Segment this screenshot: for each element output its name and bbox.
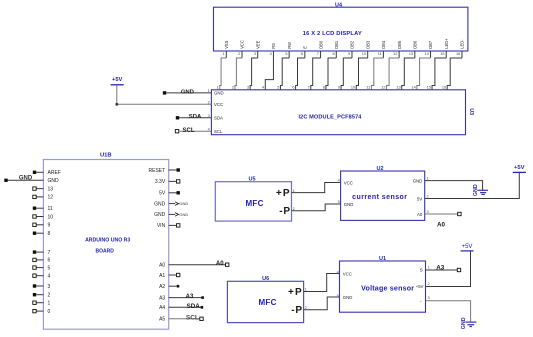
svg-text:6: 6	[292, 86, 294, 90]
Arduino Uno R3 board U1B	[43, 153, 168, 330]
svg-text:3: 3	[428, 296, 430, 300]
svg-text:GND: GND	[344, 202, 354, 207]
svg-text:+5V: +5V	[462, 244, 473, 250]
Arduino pin 5V (right)	[159, 191, 180, 197]
Arduino pin 5 (left)	[33, 265, 51, 271]
Arduino pin 8 (left)	[33, 231, 51, 237]
svg-text:16: 16	[456, 52, 460, 56]
MFC block U5	[215, 177, 294, 222]
svg-text:U2: U2	[376, 166, 383, 172]
wire U1 +5V pin 2 to +5V	[426, 251, 471, 287]
svg-text:4: 4	[262, 86, 264, 90]
svg-text:-P: -P	[279, 206, 291, 217]
Arduino pin 6 (left)	[33, 258, 51, 264]
LCD U4 pin 14 stub	[425, 51, 431, 58]
svg-text:A0: A0	[159, 263, 165, 269]
svg-text:GND: GND	[19, 175, 33, 181]
svg-text:A0: A0	[216, 261, 224, 267]
svg-text:11: 11	[378, 52, 382, 56]
svg-text:SDA: SDA	[187, 303, 201, 310]
LCD U4 pin 13 stub	[409, 51, 415, 58]
svg-text:4: 4	[48, 274, 51, 280]
svg-text:15: 15	[440, 52, 444, 56]
LCD display U4	[214, 2, 468, 51]
svg-text:MFC: MFC	[245, 199, 263, 208]
svg-text:A4: A4	[159, 305, 165, 311]
Arduino pin A5 with net label SCL	[159, 315, 203, 323]
svg-text:14: 14	[412, 86, 416, 90]
svg-text:I2C MODULE_PCF8574: I2C MODULE_PCF8574	[298, 114, 362, 120]
svg-text:4: 4	[337, 270, 339, 274]
svg-text:VSS: VSS	[224, 40, 229, 48]
svg-text:3.3V: 3.3V	[155, 179, 166, 185]
svg-text:4: 4	[338, 179, 340, 183]
Arduino pin 0 (left)	[33, 309, 51, 315]
svg-text:DB6: DB6	[413, 40, 418, 49]
svg-text:16: 16	[442, 86, 446, 90]
svg-text:A0: A0	[437, 222, 446, 229]
+5V power symbol (voltage sensor)	[461, 244, 474, 251]
svg-text:6: 6	[48, 258, 51, 264]
svg-text:SDA: SDA	[214, 115, 223, 120]
Arduino pin 3 (left)	[33, 284, 51, 290]
wire U2 A0 pin 3 to terminal, net label A0	[425, 212, 461, 228]
wire LCD pin 16 to I2C module pin 16	[442, 58, 462, 90]
svg-text:A3: A3	[186, 294, 194, 300]
Arduino pin A1	[159, 273, 180, 279]
Arduino pin 10 (left)	[33, 214, 53, 220]
svg-text:8: 8	[323, 86, 325, 90]
Arduino pin 7 (left)	[33, 250, 51, 256]
svg-text:+5V: +5V	[112, 77, 123, 83]
Arduino pin 12 (left)	[33, 195, 53, 201]
svg-text:7: 7	[48, 250, 51, 256]
wire LCD pin 9 to I2C module pin 9	[338, 58, 352, 90]
svg-text:GND: GND	[48, 178, 60, 184]
I2C module U3 PCF8574	[208, 89, 475, 135]
svg-text:11: 11	[366, 86, 370, 90]
wire LCD pin 4 to I2C module pin 4	[262, 58, 273, 90]
svg-text:6: 6	[301, 52, 303, 56]
svg-text:5: 5	[277, 86, 279, 90]
svg-text:0: 0	[48, 309, 51, 315]
svg-text:ARDUINO UNO R3: ARDUINO UNO R3	[85, 237, 130, 243]
svg-text:SCL: SCL	[214, 129, 223, 134]
svg-text:2: 2	[238, 52, 240, 56]
net label GND (I2C pin 1)	[163, 89, 212, 95]
svg-text:1: 1	[428, 265, 430, 269]
svg-text:11: 11	[48, 206, 53, 212]
svg-text:GND: GND	[343, 295, 353, 300]
svg-text:U6: U6	[262, 276, 269, 282]
svg-text:GND: GND	[154, 212, 166, 218]
svg-text:2: 2	[293, 207, 295, 211]
svg-text:5: 5	[285, 52, 287, 56]
wire LCD pin 7 to I2C module pin 7	[308, 58, 321, 90]
svg-text:DB4: DB4	[381, 40, 386, 49]
LCD U4 pin 1 stub	[222, 51, 226, 58]
svg-text:1: 1	[48, 301, 51, 307]
svg-text:E: E	[303, 46, 308, 49]
wire LCD pin 2 to I2C module pin 2	[232, 58, 242, 90]
svg-text:GND: GND	[214, 91, 224, 96]
wire U6 +P to U1 VCC pin 4	[304, 274, 340, 292]
svg-text:LED+: LED+	[444, 38, 449, 49]
LCD U4 pin 7 stub	[317, 51, 321, 58]
current sensor U2	[338, 166, 429, 221]
LCD U4 pin 11 stub	[378, 51, 384, 58]
svg-text:+P: +P	[288, 287, 303, 298]
LCD U4 pin 15 stub	[440, 51, 446, 58]
LCD U4 pin 6 stub	[301, 51, 305, 58]
svg-text:7: 7	[317, 52, 319, 56]
wire LCD pin 12 to I2C module pin 12	[381, 58, 399, 90]
wire U1 S pin 1 to terminal, net label A3	[426, 264, 461, 271]
svg-text:3: 3	[427, 210, 429, 214]
Arduino pin A0 with net label A0	[159, 261, 229, 268]
Arduino GND pin with net label GND	[4, 175, 59, 184]
net label SDA (I2C pin 3)	[176, 114, 212, 120]
Arduino pin A3 with net label A3	[159, 294, 204, 302]
svg-text:GND: GND	[154, 201, 166, 207]
svg-text:VCC: VCC	[214, 102, 223, 107]
Arduino pin VIN (right)	[157, 223, 180, 229]
svg-text:5: 5	[338, 200, 340, 204]
svg-text:16 X 2 LCD DISPLAY: 16 X 2 LCD DISPLAY	[303, 31, 362, 37]
wire LCD pin 3 to I2C module pin 3	[247, 58, 258, 90]
MFC block U6	[227, 276, 306, 322]
svg-text:DB7: DB7	[428, 40, 433, 49]
LCD U4 pin 12 stub	[393, 51, 399, 58]
Arduino GND pin with ground arrow symbol	[154, 212, 188, 218]
svg-text:2: 2	[428, 282, 430, 286]
svg-text:A2: A2	[159, 284, 165, 290]
svg-text:1: 1	[222, 52, 224, 56]
svg-text:15: 15	[427, 86, 431, 90]
svg-text:VCC: VCC	[344, 180, 353, 185]
svg-text:RW: RW	[287, 42, 292, 49]
LCD U4 pin 10 stub	[362, 51, 368, 58]
svg-text:U1: U1	[379, 256, 386, 262]
svg-text:9: 9	[48, 223, 51, 229]
svg-text:LED-: LED-	[460, 39, 465, 49]
svg-text:DB2: DB2	[350, 40, 355, 49]
Arduino pin A2	[159, 284, 179, 290]
LCD U4 pin 5 stub	[285, 51, 289, 58]
LCD U4 pin 4 stub	[270, 51, 274, 58]
svg-text:12: 12	[381, 86, 385, 90]
svg-text:AREF: AREF	[48, 170, 61, 176]
+5V power symbol (current sensor)	[513, 165, 526, 173]
svg-text:1: 1	[217, 86, 219, 90]
wire LCD pin 1 to I2C module pin 1	[217, 58, 227, 90]
svg-text:GND: GND	[181, 89, 194, 95]
wire LCD pin 10 to I2C module pin 10	[351, 58, 368, 90]
svg-text:GND: GND	[179, 201, 188, 206]
wire LCD pin 11 to I2C module pin 11	[366, 58, 383, 90]
svg-text:-P: -P	[291, 305, 303, 316]
svg-text:BOARD: BOARD	[96, 249, 115, 255]
net label SCL (I2C pin 4)	[175, 128, 211, 134]
svg-text:A3: A3	[436, 264, 445, 271]
ground symbol (voltage sensor)	[461, 317, 477, 329]
Arduino pin AREF (left)	[33, 170, 61, 176]
wire +5V to I2C VCC pin 2	[117, 85, 212, 105]
svg-text:2: 2	[232, 86, 234, 90]
svg-text:DB1: DB1	[334, 40, 339, 49]
svg-text:DB3: DB3	[365, 40, 370, 49]
svg-text:13: 13	[48, 186, 54, 192]
svg-text:8: 8	[332, 52, 334, 56]
svg-text:SCL: SCL	[183, 128, 195, 134]
svg-text:RS: RS	[271, 43, 276, 49]
LCD U4 pin 8 stub	[332, 51, 336, 58]
wire LCD pin 5 to I2C module pin 5	[277, 58, 289, 90]
Arduino GND pin with ground arrow symbol	[154, 201, 188, 207]
svg-text:+5V: +5V	[416, 284, 424, 289]
svg-text:VCC: VCC	[343, 272, 352, 277]
svg-text:A3: A3	[159, 295, 165, 301]
Arduino pin RESET (right)	[149, 168, 180, 174]
svg-text:U1B: U1B	[100, 153, 112, 159]
svg-text:9: 9	[338, 86, 340, 90]
svg-text:GND: GND	[461, 317, 467, 329]
svg-text:DB0: DB0	[318, 40, 323, 49]
svg-text:7: 7	[308, 86, 310, 90]
svg-text:VCC: VCC	[240, 40, 245, 49]
Arduino pin 1 (left)	[33, 301, 51, 307]
wire U2 GND pin 1 to ground	[425, 181, 483, 191]
svg-text:U3: U3	[468, 108, 474, 115]
wire LCD pin 6 to I2C module pin 6	[292, 58, 304, 90]
svg-text:5: 5	[337, 294, 339, 298]
svg-text:12: 12	[393, 52, 397, 56]
svg-text:13: 13	[409, 52, 413, 56]
svg-text:DB5: DB5	[397, 40, 402, 49]
svg-text:8: 8	[48, 231, 51, 237]
wire LCD pin 13 to I2C module pin 13	[396, 58, 414, 90]
svg-text:2: 2	[48, 293, 51, 299]
wire U5 -P to U2 GND pin 5	[292, 204, 341, 211]
wire U5 +P to U2 VCC pin 4	[292, 183, 341, 193]
svg-text:10: 10	[362, 52, 366, 56]
svg-text:3: 3	[254, 52, 256, 56]
LCD U4 pin 2 stub	[238, 51, 242, 58]
svg-text:U4: U4	[335, 2, 343, 8]
LCD U4 pin 16 stub	[456, 51, 462, 58]
svg-text:A0: A0	[417, 212, 423, 217]
svg-text:SCL: SCL	[186, 315, 199, 322]
svg-text:SDA: SDA	[189, 114, 202, 120]
svg-text:13: 13	[396, 86, 400, 90]
svg-text:5: 5	[48, 265, 51, 271]
wire LCD pin 15 to I2C module pin 15	[427, 58, 447, 90]
svg-text:GND: GND	[413, 179, 423, 184]
wire U2 5V pin 2 to +5V	[425, 172, 520, 198]
svg-text:10: 10	[351, 86, 355, 90]
svg-text:10: 10	[48, 214, 54, 220]
svg-text:RESET: RESET	[149, 168, 166, 174]
junction dot	[115, 103, 118, 106]
svg-text:A5: A5	[159, 317, 165, 323]
Arduino pin 13 (left)	[33, 186, 53, 192]
svg-text:A1: A1	[159, 273, 165, 279]
svg-text:4: 4	[270, 52, 272, 56]
svg-text:GND: GND	[473, 184, 479, 196]
svg-text:Voltage sensor: Voltage sensor	[361, 285, 414, 293]
svg-text:current sensor: current sensor	[352, 194, 407, 201]
svg-text:MFC: MFC	[258, 298, 276, 307]
svg-text:5V: 5V	[159, 191, 166, 197]
svg-text:U5: U5	[248, 177, 255, 183]
LCD U4 pin 3 stub	[254, 51, 258, 58]
Arduino pin 9 (left)	[33, 223, 51, 229]
svg-text:5V: 5V	[417, 196, 422, 201]
svg-text:1: 1	[427, 177, 429, 181]
svg-text:VEE: VEE	[255, 40, 260, 48]
svg-text:+P: +P	[276, 188, 291, 199]
svg-text:+5V: +5V	[514, 165, 525, 171]
svg-text:3: 3	[247, 86, 249, 90]
svg-text:9: 9	[348, 52, 350, 56]
Arduino pin 3.3V (right)	[155, 179, 180, 185]
wire LCD pin 14 to I2C module pin 14	[412, 58, 431, 90]
svg-text:3: 3	[48, 284, 51, 290]
wire LCD pin 8 to I2C module pin 8	[323, 58, 337, 90]
svg-text:2: 2	[427, 194, 429, 198]
svg-text:GND: GND	[179, 212, 188, 217]
svg-text:14: 14	[425, 52, 429, 56]
+5V power symbol (I2C supply)	[111, 77, 124, 85]
Arduino pin A4 with net label SDA	[159, 303, 203, 311]
voltage sensor U1	[337, 256, 430, 312]
Arduino pin 4 (left)	[33, 274, 51, 280]
svg-text:VIN: VIN	[157, 223, 166, 229]
wire U1 - pin 3 to ground	[426, 301, 471, 322]
svg-text:S: S	[420, 268, 423, 274]
ground symbol (current sensor)	[473, 184, 488, 196]
svg-text:12: 12	[48, 195, 54, 201]
Arduino pin 2 (left)	[33, 293, 51, 299]
Arduino pin 11 (left)	[33, 206, 53, 212]
LCD U4 pin 9 stub	[348, 51, 352, 58]
wire U6 -P to U1 GND pin 5	[304, 297, 340, 310]
